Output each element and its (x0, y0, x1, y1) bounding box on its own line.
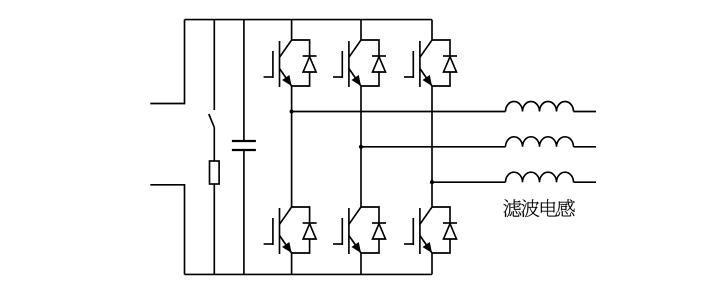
upper IGBT Q5 emitter arrowhead (423, 75, 433, 86)
upper IGBT Q3 body bar (348, 41, 350, 87)
lower IGBT Q4 antiparallel diode D triangle (373, 224, 386, 239)
leg 2 midpoint wire (360, 86, 362, 207)
switch S upper lead wire (213, 20, 215, 110)
phase A output wire (292, 111, 506, 113)
lower IGBT Q2 gate bar (272, 218, 274, 245)
lower IGBT Q6 emitter arrowhead (423, 242, 433, 253)
upper IGBT Q1 emitter slant with arrow (280, 69, 292, 87)
filter inductor L2 (506, 137, 574, 147)
node phase C junction dot (430, 180, 434, 184)
upper IGBT Q5 gate lead (404, 76, 413, 78)
lower IGBT Q4 collector slant (349, 207, 361, 224)
lower IGBT Q6 body bar (419, 208, 421, 254)
upper IGBT Q5 antiparallel diode D cathode bar (443, 55, 457, 57)
switch-resistor wire (213, 127, 215, 161)
upper IGBT Q3 diode branch top wire (361, 40, 379, 56)
label text 滤波电感 (filter inductance) (503, 199, 575, 217)
leg 2 emitter lead wire to bottom bus (360, 253, 362, 274)
lower IGBT Q2 gate lead (264, 243, 273, 245)
upper IGBT Q1 diode branch bottom wire (292, 72, 310, 86)
upper IGBT Q1 gate bar (272, 51, 274, 78)
lower IGBT Q2 diode branch bottom wire (292, 239, 310, 253)
upper IGBT Q1 body bar (279, 41, 281, 87)
phase B output wire (361, 146, 506, 148)
upper IGBT Q3 emitter arrowhead (352, 75, 362, 86)
upper IGBT Q3 diode branch bottom wire (361, 72, 379, 86)
switch S blade (209, 114, 215, 127)
upper IGBT Q1 gate lead (264, 76, 273, 78)
upper IGBT Q3 collector slant (349, 40, 361, 57)
lower IGBT Q6 antiparallel diode D triangle (444, 224, 457, 239)
lower IGBT Q6 emitter slant with arrow (420, 236, 432, 254)
capacitor C bottom lead wire (243, 150, 245, 274)
upper IGBT Q5 diode branch bottom wire (432, 72, 450, 86)
phase C output wire (432, 181, 506, 183)
lower IGBT Q2 body bar (279, 208, 281, 254)
upper IGBT Q1 antiparallel diode D triangle (303, 57, 316, 72)
lower IGBT Q6 collector slant (420, 207, 432, 224)
lower IGBT Q4 antiparallel diode D cathode bar (372, 222, 386, 224)
bottom DC bus wire (185, 273, 433, 275)
capacitor C top lead wire (243, 20, 245, 141)
leg 1 midpoint wire (291, 86, 293, 207)
upper IGBT Q3 gate lead (333, 76, 342, 78)
lower IGBT Q6 antiparallel diode D cathode bar (443, 222, 457, 224)
DC input positive stub wire (150, 20, 184, 104)
lower IGBT Q4 body bar (348, 208, 350, 254)
leg 1 emitter lead wire to bottom bus (291, 253, 293, 274)
filter inductor L3 (506, 172, 574, 182)
upper IGBT Q5 emitter slant with arrow (420, 69, 432, 87)
lower IGBT Q2 emitter slant with arrow (280, 236, 292, 254)
upper IGBT Q3 gate bar (341, 51, 343, 78)
filter inductor L1 (506, 102, 574, 112)
upper IGBT Q1 collector slant (280, 40, 292, 57)
lower IGBT Q6 diode branch top wire (432, 207, 450, 223)
lower IGBT Q2 antiparallel diode D cathode bar (303, 222, 317, 224)
phase A output wire after inductor (574, 111, 597, 113)
upper IGBT Q1 antiparallel diode D cathode bar (303, 55, 317, 57)
node phase A junction dot (290, 109, 294, 113)
upper IGBT Q1 emitter arrowhead (282, 75, 292, 86)
leg 3 midpoint wire (431, 86, 433, 207)
top DC bus wire (185, 19, 433, 21)
capacitor C bottom plate (232, 149, 256, 151)
lower IGBT Q2 diode branch top wire (292, 207, 310, 223)
upper IGBT Q5 diode branch top wire (432, 40, 450, 56)
upper IGBT Q5 antiparallel diode D triangle (444, 57, 457, 72)
phase B output wire after inductor (574, 146, 597, 148)
lower IGBT Q4 gate lead (333, 243, 342, 245)
lower IGBT Q4 emitter slant with arrow (349, 236, 361, 254)
upper IGBT Q5 body bar (419, 41, 421, 87)
leg 1 collector lead wire from top bus (291, 20, 293, 40)
leg 2 collector lead wire from top bus (360, 20, 362, 40)
lower IGBT Q4 diode branch top wire (361, 207, 379, 223)
lower IGBT Q6 diode branch bottom wire (432, 239, 450, 253)
lower IGBT Q6 gate bar (412, 218, 414, 245)
upper IGBT Q5 collector slant (420, 40, 432, 57)
leg 3 collector lead wire from top bus (431, 20, 433, 40)
upper IGBT Q3 antiparallel diode D triangle (373, 57, 386, 72)
DC input negative stub wire (150, 185, 184, 275)
phase C output wire after inductor (574, 181, 597, 183)
lower IGBT Q6 gate lead (404, 243, 413, 245)
lower IGBT Q4 diode branch bottom wire (361, 239, 379, 253)
resistor R body (210, 161, 220, 184)
lower IGBT Q4 emitter arrowhead (352, 242, 362, 253)
upper IGBT Q1 diode branch top wire (292, 40, 310, 56)
lower IGBT Q2 emitter arrowhead (282, 242, 292, 253)
lower IGBT Q4 gate bar (341, 218, 343, 245)
capacitor C top plate (232, 140, 256, 142)
node phase B junction dot (359, 145, 363, 149)
lower IGBT Q2 collector slant (280, 207, 292, 224)
upper IGBT Q3 antiparallel diode D cathode bar (372, 55, 386, 57)
lower IGBT Q2 antiparallel diode D triangle (303, 224, 316, 239)
resistor R bottom lead wire (213, 184, 215, 274)
upper IGBT Q5 gate bar (412, 51, 414, 78)
leg 3 emitter lead wire to bottom bus (431, 253, 433, 274)
upper IGBT Q3 emitter slant with arrow (349, 69, 361, 87)
